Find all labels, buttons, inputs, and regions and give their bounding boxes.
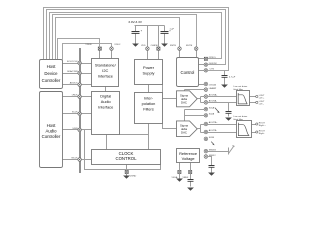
svg-text:Host: Host — [47, 64, 57, 69]
svg-text:SDIN: SDIN — [72, 128, 78, 130]
svg-text:VDD: VDD — [141, 45, 146, 47]
svg-text:S01B: S01B — [209, 137, 215, 139]
svg-text:Interface: Interface — [98, 74, 113, 79]
svg-text:Inter-: Inter- — [144, 95, 154, 100]
svg-text:Right +: Right + — [259, 124, 267, 127]
svg-text:Line out driver: Line out driver — [234, 115, 248, 118]
svg-text:AOUTB-: AOUTB- — [209, 129, 218, 132]
svg-text:fitted filter: fitted filter — [234, 118, 244, 121]
svg-text:DGND: DGND — [130, 176, 137, 178]
svg-text:Device: Device — [44, 71, 58, 76]
svg-text:Host: Host — [47, 123, 57, 128]
svg-text:DAC: DAC — [181, 100, 187, 104]
svg-text:CTN: CTN — [210, 69, 215, 71]
svg-text:4.7 µF: 4.7 µF — [229, 77, 236, 79]
svg-text:S01A: S01A — [209, 106, 215, 109]
svg-text:AOUTA-: AOUTA- — [209, 100, 217, 103]
svg-text:1 µF: 1 µF — [170, 29, 175, 31]
svg-text:AOUTB+: AOUTB+ — [209, 121, 219, 124]
svg-text:Supply: Supply — [143, 71, 155, 76]
svg-text:fitted filter: fitted filter — [234, 88, 244, 91]
svg-text:DAC: DAC — [181, 131, 187, 135]
svg-text:MUTE: MUTE — [186, 45, 193, 47]
svg-text:SM012: SM012 — [209, 155, 217, 157]
svg-text:S02A: S02A — [209, 113, 215, 116]
svg-text:DTRCL: DTRCL — [209, 57, 217, 59]
svg-text:Left +: Left + — [259, 97, 265, 100]
svg-text:SCLK: SCLK — [72, 112, 78, 114]
svg-text:Interface: Interface — [98, 105, 113, 110]
svg-text:VDDC: VDDC — [114, 44, 121, 46]
svg-text:VDDB: VDDB — [85, 44, 92, 46]
svg-text:polation: polation — [142, 101, 156, 106]
svg-text:AD0/CS: AD0/CS — [70, 82, 78, 85]
svg-text:I2C: I2C — [102, 68, 108, 73]
svg-text:VSSA: VSSA — [171, 176, 177, 179]
svg-text:+: + — [141, 29, 143, 32]
svg-text:RSTB: RSTB — [170, 45, 176, 47]
svg-text:Controller: Controller — [42, 134, 61, 139]
svg-text:LRAMP: LRAMP — [209, 87, 217, 90]
svg-text:Voltage: Voltage — [182, 156, 195, 161]
svg-text:Controller: Controller — [42, 78, 61, 83]
svg-text:CONTROL: CONTROL — [115, 156, 137, 161]
svg-text:CHR30: CHR30 — [151, 45, 159, 47]
svg-text:Digital: Digital — [100, 94, 111, 99]
svg-text:Audio: Audio — [101, 99, 111, 104]
svg-text:Right -: Right - — [259, 132, 266, 135]
svg-text:Left -: Left - — [259, 103, 264, 106]
svg-text:Line out driver: Line out driver — [234, 85, 248, 88]
svg-text:DLRCM: DLRCM — [209, 63, 217, 65]
svg-text:SM01B: SM01B — [209, 149, 217, 151]
svg-text:LVDDA: LVDDA — [209, 83, 217, 86]
svg-text:3.0V-3.3V: 3.0V-3.3V — [128, 20, 143, 24]
svg-text:Standalone/: Standalone/ — [95, 62, 117, 67]
svg-text:MCLK: MCLK — [72, 158, 79, 160]
svg-text:AOUTA+: AOUTA+ — [209, 94, 218, 97]
svg-text:Audio: Audio — [46, 129, 58, 134]
svg-text:SCL/CCLK: SCL/CCLK — [67, 61, 78, 63]
svg-text:Control: Control — [180, 70, 194, 75]
svg-text:LRCK: LRCK — [72, 95, 78, 97]
svg-text:Filters: Filters — [143, 106, 154, 111]
svg-text:VREF: VREF — [182, 177, 188, 179]
svg-text:Power: Power — [143, 65, 155, 70]
svg-text:SDA/CDIN: SDA/CDIN — [67, 70, 78, 73]
